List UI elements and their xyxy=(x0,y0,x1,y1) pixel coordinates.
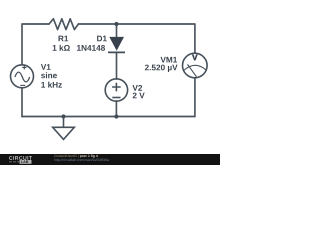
label 2 V xyxy=(133,93,145,99)
node junction dot top (D1 branch / top rail) xyxy=(114,22,118,26)
ground xyxy=(53,117,75,140)
footer credit line 2 xyxy=(54,159,109,162)
node junction dot bottom (V2 branch / bottom rail) xyxy=(114,114,118,118)
voltage source V2 (DC) xyxy=(105,79,127,101)
label 1 kHz xyxy=(41,82,62,88)
wire V1 bottom to bottom rail xyxy=(21,88,23,117)
label V2 xyxy=(132,85,142,91)
label R1 xyxy=(59,36,69,42)
label 2.520 µV xyxy=(145,65,178,72)
wire top rail right of resistor to top-right corner and down to voltmeter xyxy=(78,24,194,53)
voltmeter V letter xyxy=(192,55,197,61)
diode D1 symbol (cathode down) xyxy=(108,37,125,53)
node junction dot ground (bottom rail) xyxy=(61,114,65,118)
resistor R1 xyxy=(49,19,78,30)
label VM1 xyxy=(161,57,178,63)
wire left column top: V1 plus terminal up to top rail xyxy=(22,24,49,65)
wire V2 bottom to bottom rail xyxy=(115,101,117,117)
voltage source V1 (sine) xyxy=(11,65,34,88)
label D1 xyxy=(97,36,107,42)
wire voltmeter bottom to bottom rail xyxy=(194,78,196,117)
wire bottom rail xyxy=(22,116,195,118)
label 1 kΩ xyxy=(53,45,70,51)
wire diode branch from top rail xyxy=(116,24,118,37)
footer credit line 1 xyxy=(54,155,78,158)
label sine xyxy=(41,72,57,78)
label 1N4148 xyxy=(77,45,105,51)
voltmeter VM1 xyxy=(183,53,208,78)
wire diode cathode to V2 top xyxy=(116,52,118,79)
CircuitLab logo xyxy=(9,156,32,164)
label V1 xyxy=(41,64,51,70)
footer watermark bar xyxy=(0,154,220,165)
